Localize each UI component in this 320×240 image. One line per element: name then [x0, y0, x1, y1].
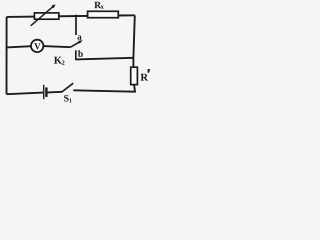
rheostat arrowhead [51, 4, 55, 8]
switch K2 lever [70, 42, 80, 48]
label S1: 1 subscript [69, 98, 71, 102]
resistor R' (box) [131, 67, 138, 84]
voltmeter V (circle) [31, 40, 43, 52]
label K2: K [54, 57, 62, 64]
label K2: 2 subscript [62, 61, 65, 65]
voltmeter letter V [34, 43, 40, 49]
wire: node a drop from top wire [75, 15, 77, 35]
label R': R [141, 74, 149, 81]
switch S1 lever [62, 83, 73, 92]
label Rx: x subscript [101, 6, 104, 9]
wire: bottom side left segment [7, 93, 44, 95]
contact b bracket [75, 50, 77, 59]
switch K2 lever arrowhead [78, 40, 83, 44]
wire: left side [6, 17, 8, 94]
wire: bottom side right segment with jog up to R' [73, 85, 135, 92]
rheostat R (box) [34, 13, 58, 19]
wire: voltmeter branch right [43, 46, 70, 47]
wire: right side upper segment [133, 15, 134, 67]
wire: top side [7, 15, 135, 17]
label a [77, 35, 81, 39]
wire: battery to switch S1 [48, 91, 62, 94]
battery B1 short thick plate [45, 87, 47, 97]
label R' prime mark [148, 69, 151, 73]
wire: voltmeter branch left [7, 46, 32, 47]
battery B1 long thin plate [43, 85, 45, 99]
wire: b branch to right side [75, 58, 133, 60]
rheostat arrow shaft [31, 7, 53, 26]
resistor Rx (box) [88, 11, 119, 17]
label S1: S [64, 95, 69, 102]
label Rx: R [94, 2, 101, 8]
label b [78, 50, 83, 57]
